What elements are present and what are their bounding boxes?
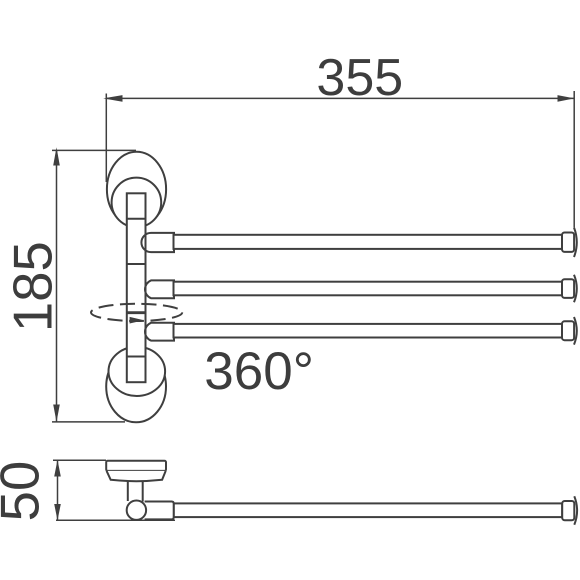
- arrow bottom of 185: [53, 405, 60, 422]
- extension line right of 355: [573, 91, 575, 227]
- extension line top of 185: [52, 149, 136, 151]
- bottom view: dimension 50: [53, 460, 175, 520]
- arm 2 end cap: [562, 279, 574, 298]
- dimension 185 line: [52, 150, 136, 422]
- bottom view: wall plate: [106, 461, 166, 471]
- extension line bottom of 50: [56, 519, 175, 521]
- arm 2 end dome arc: [574, 275, 577, 303]
- svg-text:185: 185: [3, 241, 64, 332]
- bottom view: arm hub: [145, 502, 174, 520]
- svg-text:355: 355: [316, 49, 403, 107]
- extension line top of 50: [53, 459, 106, 461]
- arm 3 end dome arc: [574, 317, 577, 345]
- extension line bottom of 185: [52, 421, 125, 423]
- bottom wall-mount outer ellipse: [106, 351, 166, 423]
- svg-text:360°: 360°: [204, 342, 314, 401]
- bottom view: arm end cap: [562, 501, 574, 520]
- post joint line 3: [127, 311, 146, 314]
- arm 1 bar: [174, 235, 563, 249]
- bottom view: arm bar: [174, 503, 563, 517]
- extension line left of 355: [105, 94, 107, 183]
- arm 3 bar: [174, 324, 563, 338]
- arm 1 end dome arc: [574, 228, 577, 258]
- arrow top of 50: [54, 460, 61, 477]
- post right edge overdraw: [145, 193, 147, 382]
- rotation arrow: [130, 317, 144, 324]
- bottom view: arm end dome arc: [574, 496, 577, 525]
- swivel post: [127, 193, 146, 382]
- arrow bottom of 50: [54, 504, 61, 520]
- dimension 355 line: [106, 91, 574, 227]
- arm 1 hub: [141, 233, 174, 252]
- arm 2 bar: [174, 282, 563, 296]
- bottom wall-mount inner ring: [109, 347, 166, 396]
- arrow right of 355: [558, 95, 575, 102]
- post joint line 1: [127, 218, 146, 220]
- bottom view: stem: [128, 480, 143, 501]
- arm 3 end cap: [562, 321, 574, 340]
- bottom view: pivot circle: [127, 501, 146, 520]
- arm 3 hub: [145, 323, 174, 341]
- top wall-mount outer ellipse: [107, 152, 166, 227]
- arrow top of 185: [53, 147, 60, 165]
- post joint line 2: [127, 263, 146, 265]
- arrow left of 355: [103, 95, 122, 102]
- rotation dashed ellipse: [91, 304, 182, 321]
- top wall-mount inner circle: [112, 178, 162, 228]
- svg-text:50: 50: [0, 461, 51, 522]
- arm 2 hub: [145, 280, 174, 298]
- bottom view: wall plate dome: [107, 471, 166, 481]
- arm 1 end cap: [562, 233, 574, 252]
- post joint line 4: [127, 356, 146, 358]
